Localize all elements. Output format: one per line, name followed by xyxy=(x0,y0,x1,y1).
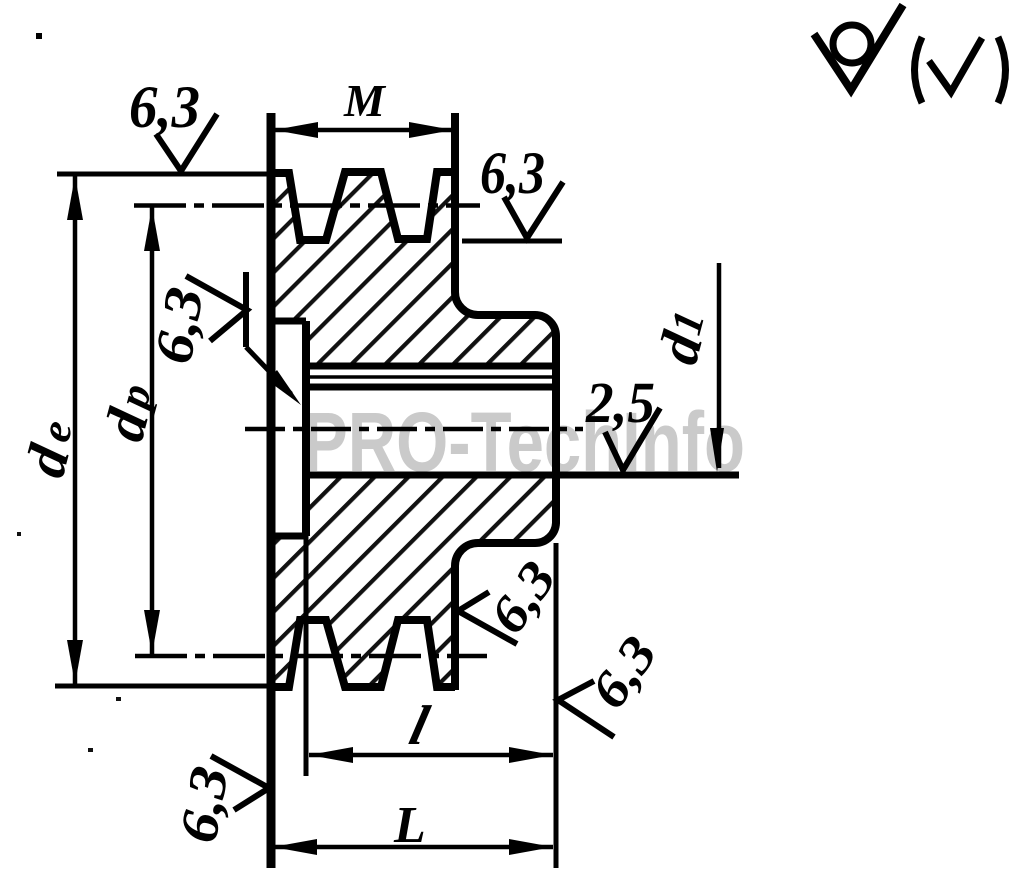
stray dot bottom-left xyxy=(88,748,93,752)
L dimension line xyxy=(273,845,553,850)
leader arrowhead xyxy=(267,370,301,405)
roughness 6,3 left-mid rotated: text xyxy=(143,283,215,368)
axis centerline dash-dot xyxy=(245,427,583,432)
svg-text:6,3: 6,3 xyxy=(480,140,545,206)
hub left extension line for l xyxy=(304,536,309,776)
d1 dimension line xyxy=(717,263,722,468)
de label xyxy=(12,413,89,483)
L arrow left xyxy=(273,839,317,855)
L arrow right xyxy=(509,839,553,855)
parenthesis left xyxy=(915,37,923,103)
lower teeth outline xyxy=(271,620,455,687)
finish symbol circle xyxy=(833,25,871,63)
roughness 6,3 left-mid: symbol strokes xyxy=(186,276,247,341)
stray dot mid-low xyxy=(116,697,121,701)
l dimension line xyxy=(309,753,553,758)
svg-text:6,3: 6,3 xyxy=(129,74,200,140)
upper teeth outline xyxy=(271,172,455,240)
roughness 6,3 right-1 rotated: text xyxy=(479,551,568,643)
small check in parens xyxy=(929,38,982,92)
de arrow down xyxy=(67,640,83,684)
M arrow right xyxy=(409,122,453,138)
roughness 6,3 top-right: check xyxy=(504,182,563,238)
M dimension line xyxy=(274,128,453,133)
roughness 2,5: check xyxy=(605,408,660,470)
parenthesis right xyxy=(998,37,1006,103)
hub right extension line down xyxy=(554,543,559,868)
dp arrow down xyxy=(144,610,160,654)
de arrow up xyxy=(67,176,83,220)
l arrow right xyxy=(509,747,553,763)
dp label xyxy=(91,376,168,447)
d1 arrow down xyxy=(710,428,724,472)
stray dot top-left xyxy=(36,33,42,39)
notch top line xyxy=(268,318,306,325)
stray dot left-mid xyxy=(17,532,21,536)
svg-text:2,5: 2,5 xyxy=(585,370,655,435)
M right extension line above teeth xyxy=(453,113,458,172)
rim right edge lower xyxy=(451,566,459,690)
title block finish symbol: check with circle xyxy=(814,5,903,90)
svg-text:L: L xyxy=(393,797,426,854)
upper right outline step with fillets xyxy=(455,292,556,475)
bore bottom line with extension right xyxy=(309,472,739,479)
hub left edge xyxy=(302,321,310,536)
roughness 6,3 bottom-left rotated: text xyxy=(168,762,240,847)
lower pitch line dash-dot xyxy=(135,654,487,659)
l arrow left xyxy=(309,747,353,763)
rim right edge upper xyxy=(451,113,459,292)
rim left edge / extension line xyxy=(267,113,276,868)
d1 label xyxy=(645,303,721,370)
svg-text:M: M xyxy=(343,75,387,126)
dp dimension line xyxy=(150,207,155,654)
keyway top line xyxy=(309,363,553,370)
lower right outline step with fillets xyxy=(455,475,556,566)
leader line to hub left face xyxy=(246,347,291,394)
upper body hatched section xyxy=(271,172,556,366)
dp arrow up xyxy=(144,207,160,251)
keyway bottom thin line xyxy=(309,375,553,379)
M arrow left xyxy=(274,122,318,138)
de bottom extension line xyxy=(55,684,286,689)
upper pitch line dash-dot xyxy=(134,203,480,208)
lower body hatched section xyxy=(271,475,556,687)
roughness 6,3 bottom-left: check xyxy=(211,756,269,810)
de dimension line xyxy=(73,176,78,684)
roughness 6,3 right-2 rotated: text xyxy=(580,626,669,718)
l label xyxy=(404,695,435,757)
notch bottom line xyxy=(268,533,306,540)
de top extension line xyxy=(57,172,275,177)
bore top line xyxy=(309,384,553,391)
roughness 6,3 right-1: check xyxy=(458,592,517,644)
roughness 6,3 top-right: reference line xyxy=(462,239,562,244)
roughness 6,3 right-2: check xyxy=(558,681,614,737)
roughness 6,3 top-left: check xyxy=(156,114,217,171)
